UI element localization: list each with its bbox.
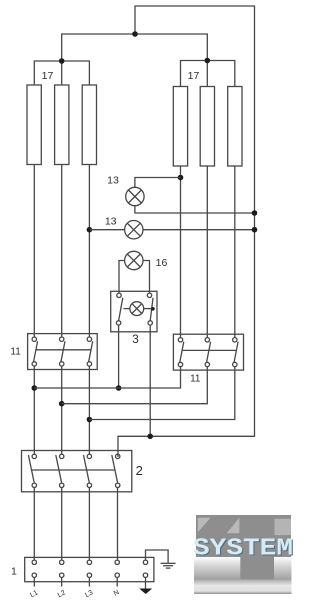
node junction L3 link <box>87 417 93 423</box>
lamp 13 upper <box>126 187 144 205</box>
svg-text:L2: L2 <box>57 589 67 599</box>
wire switch2 out2 to terminal L2 <box>61 488 63 561</box>
wire switch3 right output <box>149 325 151 436</box>
contactor left linkage bar <box>36 349 91 351</box>
switch2 linkage bar <box>31 469 114 471</box>
contactor right pole 3 <box>233 338 239 367</box>
node junction lamp2 on neutral <box>252 227 258 233</box>
contactor left pole 3 <box>87 337 92 366</box>
switch 3 left blade <box>119 298 123 321</box>
switch2 pole 4 <box>112 454 120 487</box>
label L2 <box>57 589 67 599</box>
logo background square <box>196 515 291 580</box>
logo triangle 2 <box>227 518 240 534</box>
wire link right pole3 to L3 <box>89 367 234 420</box>
lamp 13 lower <box>125 221 143 239</box>
contactor left pole 1 <box>32 337 38 366</box>
resistor heating element 17 left-2 <box>55 85 69 165</box>
label N <box>113 589 121 598</box>
contactor right linkage bar <box>182 349 237 351</box>
wire PE to chassis earth <box>146 550 169 563</box>
switch2 pole 1 <box>28 454 36 487</box>
wire lamp2 left lead <box>89 229 124 231</box>
terminal L1 <box>32 560 36 586</box>
wire right element bus <box>181 61 235 87</box>
wire switch2 out4 to terminal N <box>117 488 119 561</box>
resistor heating element 17 right-3 <box>228 87 242 167</box>
label 1 <box>11 566 17 578</box>
wire switch2 out1 to terminal L1 <box>33 488 35 561</box>
svg-text:L1: L1 <box>29 589 39 599</box>
switch 3 right blade <box>150 298 153 321</box>
svg-text:17: 17 <box>188 70 200 82</box>
svg-text:2: 2 <box>136 463 143 478</box>
wire left element bus <box>34 61 89 85</box>
contactor 11 right box <box>173 334 243 370</box>
label 11 left <box>10 347 21 358</box>
label L1 <box>29 589 39 599</box>
svg-text:11: 11 <box>10 347 21 358</box>
wire lamp1 top lead <box>135 178 181 188</box>
wire phase feed top <box>62 34 208 61</box>
resistor heating element 17 left-1 <box>27 85 41 165</box>
wire lamp3 left lead <box>119 261 125 294</box>
contactor right pole 2 <box>205 338 211 367</box>
label 16 <box>156 257 168 269</box>
contactor 11 left box <box>28 334 98 370</box>
node junction switch3 right output <box>147 434 153 440</box>
wire lamp3 right lead <box>143 261 150 294</box>
svg-text:13: 13 <box>105 216 117 228</box>
svg-text:3: 3 <box>132 332 139 346</box>
logo metallic bar <box>194 557 240 580</box>
node junction lamp1 on neutral <box>252 210 258 216</box>
wire left pole1 to switch2 pole1 <box>33 366 35 454</box>
terminal switch3 top-right <box>147 293 151 297</box>
resistor heating element 17 right-2 <box>200 87 214 167</box>
wire link right pole1 to L1 <box>34 367 180 388</box>
label 11 right <box>190 374 201 385</box>
wire element R3 drop <box>234 166 236 338</box>
logo SYSTEM text <box>193 536 294 564</box>
wire lamp2 right lead to neutral <box>143 229 255 231</box>
wire PE down lead <box>145 577 147 588</box>
svg-text:L3: L3 <box>84 589 94 599</box>
terminal switch3 top-left <box>117 293 121 297</box>
wire lamp1 bottom lead to neutral <box>135 206 255 213</box>
node junction L1 link <box>32 385 38 391</box>
contactor right pole 1 <box>178 338 184 367</box>
wire element L2 drop <box>61 165 63 338</box>
ground chassis symbol <box>161 563 176 568</box>
wire element L1 drop <box>33 165 35 338</box>
terminal PE <box>143 560 147 577</box>
terminal block 1 box <box>25 557 154 581</box>
switch 3 box <box>111 291 157 332</box>
logo bar right block <box>274 557 292 580</box>
label 17 left <box>42 70 54 82</box>
switch2 pole 3 <box>84 454 92 487</box>
terminal N <box>115 560 119 586</box>
wire star-point top link <box>118 6 255 457</box>
label 13 lower <box>105 216 117 228</box>
ground earth triangle <box>139 589 152 595</box>
wire switch2 out3 to terminal L3 <box>88 488 90 561</box>
wire link right pole2 to L2 <box>62 367 208 404</box>
node junction at (135,34) <box>132 31 138 37</box>
label 2 <box>136 463 143 478</box>
lamp 16 <box>125 251 143 269</box>
resistor heating element 17 right-1 <box>173 87 187 167</box>
terminal L2 <box>60 560 64 586</box>
wire switch3 left output <box>118 325 120 388</box>
node junction L2 link <box>59 401 65 407</box>
terminal L3 <box>87 560 91 586</box>
node junction lamp2 tap on L3 drop <box>87 227 93 233</box>
switch 2 box <box>22 451 132 492</box>
lamp internal switch3 <box>124 302 155 316</box>
wire left pole3 to switch2 pole3 <box>88 366 90 454</box>
node junction left bus <box>59 58 65 64</box>
resistor heating element 17 left-3 <box>82 85 96 165</box>
logo square 4-stem <box>275 519 292 535</box>
logo triangle 1 <box>198 518 211 533</box>
svg-text:1: 1 <box>11 566 17 578</box>
node junction right bus <box>205 58 211 64</box>
label 3 <box>132 332 139 346</box>
wire element L3 drop <box>88 165 90 338</box>
logo bar bottom strip <box>194 580 292 595</box>
switch2 pole 2 <box>56 454 64 487</box>
label 13 upper <box>107 175 119 187</box>
label 17 right <box>188 70 200 82</box>
contactor left pole 2 <box>60 337 66 366</box>
node junction lamp1 tap on R1 drop <box>178 175 184 181</box>
terminal switch3 bottom-left <box>116 321 120 325</box>
svg-text:16: 16 <box>156 257 168 269</box>
svg-text:N: N <box>113 589 121 598</box>
terminal switch3 bottom-right <box>148 321 152 325</box>
wire left pole2 to switch2 pole2 <box>61 366 63 454</box>
node junction switch3 left output <box>116 385 122 391</box>
label L3 <box>84 589 94 599</box>
wire element R1 drop <box>180 166 182 338</box>
svg-text:17: 17 <box>42 70 54 82</box>
svg-text:13: 13 <box>107 175 119 187</box>
svg-text:11: 11 <box>190 374 201 385</box>
wire element R2 drop <box>206 166 208 338</box>
